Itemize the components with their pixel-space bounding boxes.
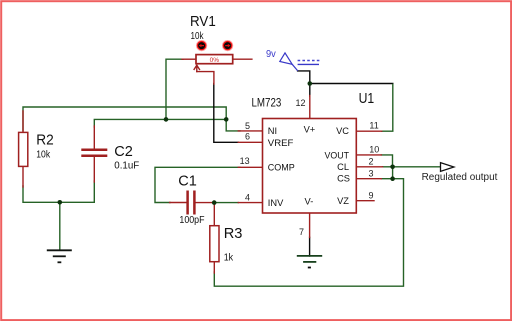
pin stub C2 top — [93, 126, 95, 149]
RV1 button left — [196, 40, 207, 51]
svg-text:0.1uF: 0.1uF — [114, 160, 139, 171]
svg-text:0%: 0% — [210, 57, 220, 64]
node dot NI — [224, 117, 229, 122]
pin stub R2 top — [22, 111, 24, 132]
svg-text:VZ: VZ — [337, 196, 349, 206]
pin stub COMP pin13 — [238, 166, 262, 168]
svg-text:5: 5 — [245, 121, 250, 131]
svg-text:10: 10 — [369, 144, 379, 154]
svg-text:12: 12 — [295, 98, 305, 108]
node dot RV1-left/C2 — [164, 117, 169, 122]
pin stub NI pin5 — [238, 130, 262, 132]
wire C2 top rail — [94, 119, 226, 127]
svg-text:7: 7 — [299, 227, 304, 237]
svg-text:VC: VC — [336, 126, 349, 136]
wire pin10 VOUT to node — [381, 155, 392, 167]
pin stub VZ pin9 — [356, 200, 374, 202]
resistor R3 — [210, 226, 219, 262]
op-amp U1 LM723 IC body — [263, 119, 357, 214]
svg-text:COMP: COMP — [268, 163, 295, 173]
svg-text:100pF: 100pF — [179, 215, 204, 226]
node dot 9v/V+ — [308, 81, 313, 86]
wire output node to arrow — [383, 166, 441, 168]
svg-text:C1: C1 — [178, 173, 197, 190]
wire left ground rail — [23, 181, 94, 202]
wire pin7 black — [309, 237, 311, 256]
ground 2 — [297, 256, 322, 268]
node dot C1/R3/INV — [212, 200, 217, 205]
wire pin3 CS node — [381, 178, 393, 180]
pin stub C1 right to node — [196, 202, 214, 204]
wire node to pin5 NI — [226, 119, 240, 130]
svg-text:RV1: RV1 — [190, 13, 216, 30]
capacitor C1 plates — [188, 191, 195, 215]
RV1 wiper arm red — [197, 72, 214, 84]
pin stub CS pin3 — [356, 178, 381, 180]
svg-text:R3: R3 — [224, 225, 243, 242]
RV1 button right — [222, 40, 233, 51]
ground 1 — [47, 250, 72, 262]
svg-text:6: 6 — [245, 132, 250, 142]
svg-text:1k: 1k — [224, 253, 234, 264]
node dot CS — [390, 176, 395, 181]
wire U1 loop VC black top — [310, 83, 393, 85]
pin stub R2 bottom — [22, 166, 24, 187]
svg-text:VREF: VREF — [268, 138, 294, 148]
svg-text:LM723: LM723 — [252, 97, 282, 109]
svg-text:C2: C2 — [114, 143, 133, 160]
wire C1 to INV green part — [216, 202, 238, 204]
wire wiper black — [214, 84, 239, 143]
pin stub C2 bottom — [93, 157, 95, 183]
svg-text:10k: 10k — [36, 150, 51, 161]
svg-text:CL: CL — [337, 162, 349, 172]
svg-text:9: 9 — [369, 191, 374, 201]
output arrow — [441, 163, 454, 172]
9v power flag — [280, 53, 320, 71]
svg-text:VOUT: VOUT — [325, 150, 350, 160]
svg-text:U1: U1 — [359, 90, 375, 107]
wire R3 bottom loop to CS — [214, 179, 403, 287]
svg-text:CS: CS — [337, 174, 350, 184]
svg-text:Regulated output: Regulated output — [422, 172, 498, 183]
wire R2 top to NI node — [23, 107, 226, 131]
svg-text:2: 2 — [369, 157, 374, 167]
capacitor C2 plates — [81, 150, 107, 156]
svg-text:13: 13 — [240, 156, 250, 166]
pin stub RV1 left — [182, 58, 196, 60]
wire RV1 left terminal — [166, 59, 183, 119]
resistor R2 — [19, 132, 28, 166]
wire node2 vertical — [392, 167, 394, 179]
wire U1 loop VC green — [382, 85, 393, 132]
svg-text:INV: INV — [268, 198, 284, 208]
svg-text:4: 4 — [245, 192, 250, 202]
pin stub R3 top — [213, 204, 215, 226]
pin stub INV pin4 — [238, 202, 262, 204]
wire COMP loop to C1 — [155, 167, 240, 202]
pin stub CL pin2 — [356, 166, 382, 168]
pin stub C1 left — [170, 202, 187, 204]
pin stub VC pin11 — [356, 130, 381, 132]
svg-text:9v: 9v — [266, 49, 276, 60]
node dot CL/output — [390, 165, 395, 170]
node dot ground rail — [58, 200, 63, 205]
svg-text:V+: V+ — [304, 125, 316, 135]
potentiometer RV1 body — [196, 55, 233, 64]
svg-text:10k: 10k — [191, 31, 205, 42]
pin stub RV1 right — [233, 58, 252, 60]
svg-text:11: 11 — [369, 121, 378, 131]
pin stub V+ pin12 — [309, 96, 311, 119]
pin stub VREF pin6 — [238, 141, 262, 143]
pin stub VOUT pin10 — [356, 154, 381, 156]
pin stub V- pin7 — [309, 213, 311, 238]
wire 9v black — [298, 71, 310, 96]
RV1 wiper arrow — [194, 65, 199, 71]
svg-text:R2: R2 — [36, 132, 54, 149]
svg-text:NI: NI — [268, 126, 277, 136]
svg-text:3: 3 — [369, 169, 374, 179]
pin stub R3 bottom — [213, 262, 215, 273]
svg-text:V-: V- — [305, 197, 314, 207]
wire ground drop — [59, 202, 61, 249]
